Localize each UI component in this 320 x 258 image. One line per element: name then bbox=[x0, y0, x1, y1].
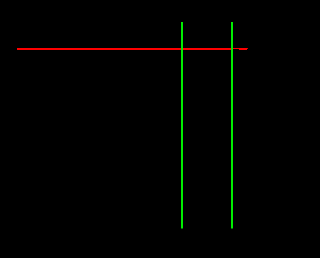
green cursor line 2 bbox=[231, 22, 233, 228]
red trace right dash segment bbox=[239, 48, 247, 50]
green cursor line 1 bottom fade bbox=[181, 228, 183, 229]
green cursor line 1 bbox=[181, 22, 183, 228]
red trace main segment bbox=[17, 48, 233, 50]
green cursor line 2 bottom fade bbox=[231, 228, 233, 229]
red trace right tip pixel bbox=[247, 48, 248, 49]
red trace thin notch segment bbox=[233, 48, 239, 49]
